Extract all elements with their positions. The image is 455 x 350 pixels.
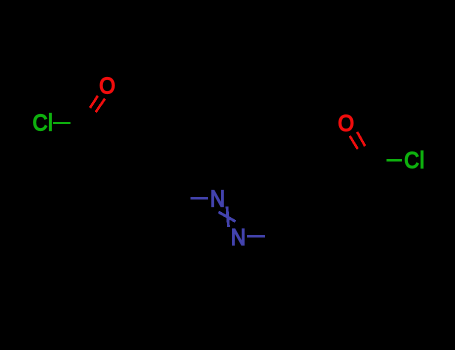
bond N-ring (blue half of right N-C bond) — [247, 235, 265, 237]
bond C-Cl (green half of right C-Cl single bond) — [387, 159, 403, 161]
atom O (right carbonyl oxygen label) — [338, 110, 354, 137]
bond C=O (red half of left carbonyl double bond, line 2) — [96, 99, 105, 113]
atom O (left carbonyl oxygen label) — [99, 72, 115, 99]
atom N (lower azo nitrogen label) — [231, 224, 246, 251]
svg-text:Cl: Cl — [33, 109, 54, 136]
atom N (upper azo nitrogen label) — [210, 185, 225, 212]
svg-text:N: N — [210, 185, 225, 212]
svg-text:O: O — [338, 110, 354, 137]
svg-text:N: N — [231, 224, 246, 251]
bond N=N (crossed azo double bond, shallow line) — [219, 212, 236, 222]
atom Cl (left chlorine label) — [33, 109, 54, 136]
bond Cl-C (green half of left C-Cl single bond) — [53, 122, 71, 124]
bond ring-N (blue half of left C-N bond) — [191, 197, 209, 199]
bond O=C (red half of right carbonyl double bond, line 2) — [357, 132, 365, 146]
bond C=O (red half of left carbonyl double bond, line 1) — [90, 96, 98, 108]
svg-text:Cl: Cl — [404, 147, 425, 174]
svg-text:O: O — [99, 72, 115, 99]
bond O=C (red half of right carbonyl double bond, line 1) — [350, 136, 358, 149]
atom Cl (right chlorine label) — [404, 147, 425, 174]
bond N=N (crossed azo double bond, steep line) — [227, 207, 229, 228]
